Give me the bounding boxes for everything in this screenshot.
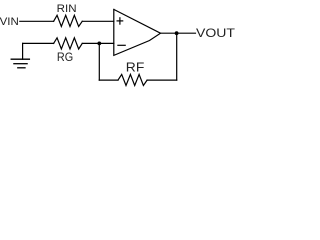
- svg-text:RIN: RIN: [57, 3, 77, 15]
- svg-text:RF: RF: [126, 61, 145, 75]
- svg-text:VIN: VIN: [0, 16, 19, 28]
- svg-text:VOUT: VOUT: [196, 28, 235, 40]
- svg-text:RG: RG: [57, 50, 73, 64]
